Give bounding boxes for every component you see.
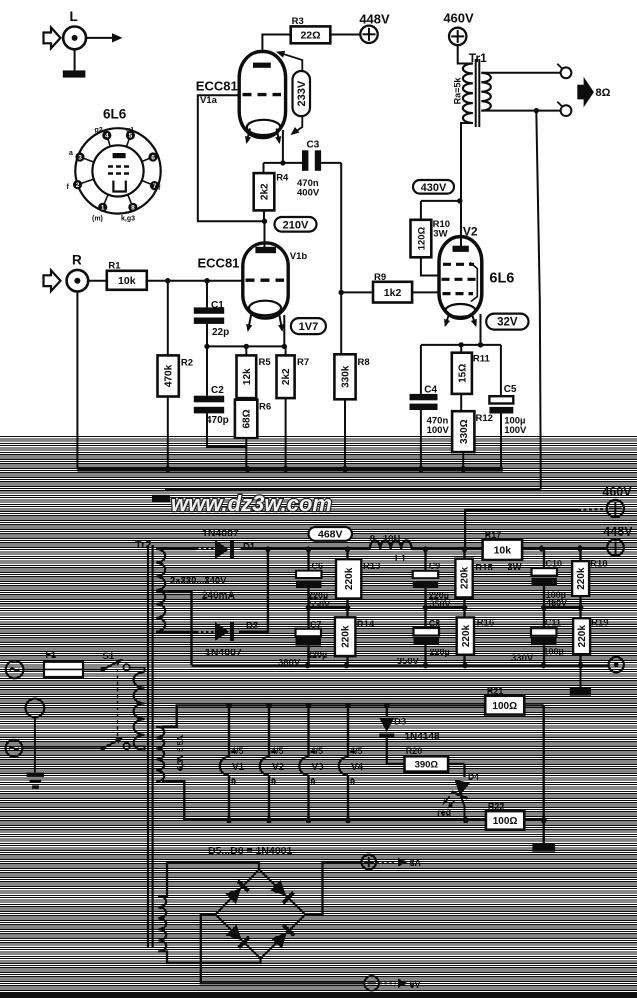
svg-text:550V: 550V bbox=[309, 599, 330, 609]
wire R3 to 448V bbox=[330, 34, 360, 36]
svg-text:R6: R6 bbox=[259, 402, 271, 413]
B+ rail bbox=[241, 546, 608, 552]
svg-text:D5...D8 = 1N4001: D5...D8 = 1N4001 bbox=[208, 845, 293, 857]
svg-text:F1: F1 bbox=[46, 650, 57, 660]
svg-text:R4: R4 bbox=[276, 173, 289, 184]
svg-text:R17: R17 bbox=[485, 530, 502, 540]
svg-text:R15: R15 bbox=[475, 563, 493, 574]
svg-text:9: 9 bbox=[231, 777, 236, 787]
resistor R21 100 ohm bbox=[485, 686, 544, 715]
svg-text:V1: V1 bbox=[232, 762, 245, 773]
svg-text:380V: 380V bbox=[278, 658, 301, 669]
svg-text:R9: R9 bbox=[374, 272, 386, 283]
svg-text:4/5: 4/5 bbox=[231, 746, 244, 756]
svg-text:S1: S1 bbox=[103, 651, 115, 662]
svg-text:R5: R5 bbox=[259, 357, 272, 368]
capacitor C5 100u 100V bbox=[489, 345, 527, 469]
svg-text:C4: C4 bbox=[424, 385, 437, 396]
svg-text:220k: 220k bbox=[341, 625, 352, 648]
svg-text:22Ω: 22Ω bbox=[300, 30, 320, 42]
svg-text:k,g3: k,g3 bbox=[121, 216, 135, 223]
svg-text:68Ω: 68Ω bbox=[242, 409, 253, 428]
wire centre tap to ground rail bbox=[156, 592, 191, 666]
svg-text:1: 1 bbox=[101, 205, 105, 212]
bridge DC plus output bbox=[305, 855, 421, 915]
svg-text:D4: D4 bbox=[468, 772, 479, 782]
wire 430V node bbox=[421, 198, 463, 220]
input jack L bbox=[44, 9, 123, 49]
svg-text:D1: D1 bbox=[243, 542, 256, 553]
wire V2 cathode row bbox=[421, 314, 501, 348]
svg-text:100V: 100V bbox=[427, 425, 450, 436]
wire V1b cathode row bbox=[204, 315, 287, 349]
svg-text:C11: C11 bbox=[545, 618, 561, 628]
svg-text:4/5: 4/5 bbox=[271, 746, 284, 756]
svg-text:330V: 330V bbox=[511, 653, 534, 664]
svg-text:D2: D2 bbox=[246, 621, 258, 632]
svg-text:C6: C6 bbox=[312, 561, 324, 571]
capacitor C3 470n 400V bbox=[297, 140, 341, 293]
svg-text:R20: R20 bbox=[406, 746, 423, 756]
svg-text:V4: V4 bbox=[351, 762, 364, 773]
svg-text:10k: 10k bbox=[494, 545, 512, 557]
diode D2 1N4007 bbox=[156, 549, 268, 659]
svg-text:L1: L1 bbox=[395, 554, 407, 565]
watermark www.dz3w.com bbox=[171, 491, 332, 516]
label 233V bbox=[275, 48, 310, 138]
svg-text:D3: D3 bbox=[394, 717, 406, 728]
resistor R4 2k2 bbox=[254, 173, 289, 222]
svg-text:R22: R22 bbox=[488, 802, 505, 812]
svg-text:red: red bbox=[437, 808, 451, 818]
resistor R22 100 ohm bbox=[486, 802, 544, 830]
svg-text:15Ω: 15Ω bbox=[457, 364, 468, 383]
svg-text:R19: R19 bbox=[591, 617, 608, 628]
wire speaker return bbox=[152, 111, 541, 502]
ground (L input) bbox=[63, 49, 86, 77]
resistor R11 15 ohm bbox=[452, 345, 491, 411]
svg-text:3W: 3W bbox=[507, 562, 521, 573]
wire grid line V1b bbox=[147, 278, 243, 283]
svg-text:220k: 220k bbox=[576, 567, 587, 590]
capacitor C4 470n 100V bbox=[410, 345, 450, 469]
svg-text:C2: C2 bbox=[211, 385, 224, 396]
wire heater common to chassis bbox=[532, 705, 555, 851]
svg-text:2k2: 2k2 bbox=[281, 368, 292, 385]
svg-text:R: R bbox=[72, 253, 82, 268]
svg-text:(m): (m) bbox=[92, 216, 103, 223]
bottom scan edge bbox=[0, 993, 637, 998]
svg-text:4: 4 bbox=[105, 133, 109, 140]
bridge rectifier D5..D8 1N4001 bbox=[208, 845, 305, 959]
resistor R8 330k bbox=[334, 292, 369, 469]
svg-text:6A: 6A bbox=[410, 858, 422, 868]
label 32V bbox=[486, 314, 528, 330]
svg-text:7: 7 bbox=[153, 183, 157, 190]
resistor R7 2k2 bbox=[277, 346, 310, 469]
svg-text:220k: 220k bbox=[344, 567, 355, 590]
svg-text:Ra=5k: Ra=5k bbox=[453, 77, 463, 105]
svg-text:12k: 12k bbox=[242, 368, 253, 385]
heater rail bottom bbox=[162, 782, 486, 824]
wire Tr1 to V2 anode bbox=[460, 201, 462, 246]
heater V2 bbox=[260, 705, 285, 820]
svg-text:4/5: 4/5 bbox=[311, 746, 324, 756]
6L6 pinout diagram bbox=[67, 107, 162, 223]
svg-text:1N4007: 1N4007 bbox=[205, 647, 242, 659]
svg-text:ECC81: ECC81 bbox=[196, 79, 238, 94]
svg-text:R8: R8 bbox=[358, 357, 370, 368]
svg-text:L: L bbox=[70, 9, 78, 24]
capacitor C6 C7 resistor R13 R14 (filter stage 1) bbox=[296, 549, 381, 666]
input jack R bbox=[44, 253, 107, 292]
svg-text:240mA: 240mA bbox=[202, 591, 235, 602]
svg-text:450V: 450V bbox=[546, 598, 567, 608]
mains terminal 1 bbox=[6, 661, 44, 679]
diode D3 1N4148 bbox=[379, 705, 440, 764]
svg-text:1N4148: 1N4148 bbox=[405, 732, 440, 743]
tube V1a ECC81 bbox=[196, 52, 286, 145]
resistor R10 120 ohm 3W bbox=[411, 219, 451, 276]
wire V1b anode bbox=[264, 221, 266, 247]
capacitor C10 C11 resistor R18 R19 (filter stage 3) bbox=[531, 549, 609, 666]
svg-text:R14: R14 bbox=[357, 619, 375, 630]
svg-text:R16: R16 bbox=[477, 618, 494, 629]
resistor R1 10k bbox=[107, 261, 147, 290]
svg-text:350V: 350V bbox=[397, 656, 420, 667]
svg-text:6,3V 5,5A: 6,3V 5,5A bbox=[176, 735, 185, 771]
resistor R12 330 ohm bbox=[452, 411, 493, 469]
svg-text:3: 3 bbox=[78, 154, 82, 161]
svg-text:10k: 10k bbox=[118, 275, 136, 287]
svg-text:R11: R11 bbox=[473, 354, 491, 365]
svg-text:g2: g2 bbox=[95, 127, 103, 134]
svg-text:350V: 350V bbox=[430, 599, 451, 609]
earth terminal and ground bbox=[26, 699, 45, 789]
resistor R5 12k bbox=[237, 346, 272, 398]
transformer Tr2 bbox=[134, 539, 235, 952]
svg-text:448V: 448V bbox=[603, 525, 633, 539]
svg-text:R18: R18 bbox=[590, 558, 607, 569]
svg-text:100Ω: 100Ω bbox=[492, 701, 517, 712]
LED D4 red bbox=[437, 772, 479, 821]
svg-text:R2: R2 bbox=[181, 358, 193, 369]
terminal 448V supply bbox=[603, 525, 633, 556]
svg-text:1V7: 1V7 bbox=[299, 321, 319, 333]
resistor R17 10k 3W bbox=[483, 530, 522, 560]
svg-text:460V: 460V bbox=[443, 11, 474, 26]
resistor R3 22 ohm bbox=[291, 16, 331, 43]
svg-text:C9: C9 bbox=[429, 561, 441, 571]
svg-text:220µ: 220µ bbox=[430, 647, 450, 657]
svg-text:32V: 32V bbox=[497, 317, 518, 329]
svg-text:2k2: 2k2 bbox=[260, 183, 271, 200]
bridge DC minus output bbox=[201, 915, 421, 991]
svg-text:6: 6 bbox=[151, 154, 155, 161]
svg-text:220µ: 220µ bbox=[307, 649, 327, 659]
label 468V bbox=[309, 527, 353, 541]
svg-text:f: f bbox=[158, 185, 161, 192]
label 430V bbox=[413, 180, 454, 194]
svg-text:R12: R12 bbox=[476, 413, 493, 424]
capacitor C2 470p bbox=[194, 346, 247, 446]
svg-text:2x330...340V: 2x330...340V bbox=[170, 576, 227, 587]
svg-text:470k: 470k bbox=[164, 364, 175, 387]
bridge AC wires bbox=[158, 862, 260, 963]
node labels 380V 350V 330V bbox=[278, 653, 534, 669]
svg-text:6L6: 6L6 bbox=[489, 271, 514, 287]
svg-text:233V: 233V bbox=[296, 80, 308, 106]
svg-text:www.dz3w.com: www.dz3w.com bbox=[171, 491, 332, 516]
svg-text:C3: C3 bbox=[307, 140, 320, 151]
node 210V bbox=[262, 217, 317, 232]
svg-text:8...10H: 8...10H bbox=[370, 534, 401, 545]
diode D1 1N4007 bbox=[156, 528, 256, 560]
heater V3 bbox=[299, 705, 324, 820]
svg-text:470p: 470p bbox=[206, 415, 229, 426]
svg-text:210V: 210V bbox=[283, 219, 309, 231]
ground rail (top schematic) bbox=[77, 466, 502, 472]
resistor R6 68 ohm bbox=[235, 400, 271, 470]
svg-text:R3: R3 bbox=[292, 16, 304, 27]
svg-text:460V: 460V bbox=[602, 485, 632, 499]
svg-text:R1: R1 bbox=[108, 261, 121, 272]
heater rail top bbox=[162, 702, 485, 726]
svg-text:1N4007: 1N4007 bbox=[202, 528, 239, 540]
svg-text:400V: 400V bbox=[297, 188, 320, 199]
svg-text:468V: 468V bbox=[318, 529, 343, 541]
fuse F1 bbox=[44, 650, 101, 678]
svg-text:9: 9 bbox=[271, 777, 276, 787]
svg-text:V1b: V1b bbox=[290, 251, 308, 262]
label 1V7 bbox=[291, 318, 326, 334]
svg-text:C1: C1 bbox=[211, 300, 224, 311]
svg-text:C10: C10 bbox=[546, 559, 563, 569]
heater V4 bbox=[339, 705, 364, 820]
svg-text:6V: 6V bbox=[410, 979, 421, 989]
svg-text:V3: V3 bbox=[312, 762, 325, 773]
capacitor C1 22p bbox=[194, 281, 229, 347]
terminal 460V top bbox=[443, 11, 474, 46]
svg-text:100V: 100V bbox=[504, 425, 527, 436]
bottom rail and 0V terminal bbox=[192, 657, 624, 696]
svg-text:6L6: 6L6 bbox=[103, 107, 127, 122]
resistor R2 470k bbox=[158, 281, 194, 470]
resistor R9 1k2 bbox=[339, 272, 440, 303]
svg-text:4/5: 4/5 bbox=[350, 746, 363, 756]
svg-text:120Ω: 120Ω bbox=[416, 226, 427, 250]
heater V1 bbox=[220, 705, 245, 820]
svg-text:1k2: 1k2 bbox=[384, 287, 402, 299]
svg-text:Tr1: Tr1 bbox=[469, 51, 487, 65]
tube V1b ECC81 bbox=[198, 243, 308, 333]
svg-text:430V: 430V bbox=[421, 182, 447, 194]
svg-text:22p: 22p bbox=[212, 327, 229, 338]
svg-text:ECC81: ECC81 bbox=[198, 256, 240, 271]
wire input R down to rail bbox=[76, 291, 78, 469]
output terminals and speaker 8 ohm bbox=[481, 64, 610, 116]
svg-text:R21: R21 bbox=[487, 686, 504, 696]
svg-text:C8: C8 bbox=[429, 619, 441, 629]
svg-text:2: 2 bbox=[76, 182, 80, 189]
svg-text:220k: 220k bbox=[461, 624, 472, 647]
svg-text:g1: g1 bbox=[126, 127, 134, 134]
terminal 448V bbox=[359, 12, 390, 44]
wire V1a grid return bbox=[198, 95, 265, 221]
svg-text:220k: 220k bbox=[460, 566, 471, 589]
svg-text:R13: R13 bbox=[363, 561, 380, 572]
mains terminal 2 bbox=[6, 740, 101, 757]
svg-text:330Ω: 330Ω bbox=[459, 419, 470, 444]
svg-text:448V: 448V bbox=[359, 12, 390, 27]
svg-text:390Ω: 390Ω bbox=[415, 759, 439, 770]
svg-text:a: a bbox=[69, 150, 73, 157]
svg-text:9: 9 bbox=[311, 777, 316, 787]
svg-text:V1a: V1a bbox=[200, 95, 218, 106]
wire V1a anode to R3 bbox=[262, 35, 290, 53]
svg-text:9: 9 bbox=[350, 777, 355, 787]
resistor R20 390 ohm bbox=[405, 746, 465, 777]
svg-text:100µ: 100µ bbox=[544, 646, 564, 656]
transformer Tr1 bbox=[453, 45, 491, 201]
svg-text:V2: V2 bbox=[272, 762, 285, 773]
svg-text:3W: 3W bbox=[433, 229, 447, 240]
svg-text:R7: R7 bbox=[297, 357, 309, 368]
svg-text:8Ω: 8Ω bbox=[596, 87, 611, 99]
switch S1 bbox=[100, 651, 144, 751]
svg-text:220k: 220k bbox=[577, 625, 588, 648]
svg-text:330k: 330k bbox=[341, 365, 352, 388]
terminal 460V supply with feed bbox=[465, 485, 632, 549]
choke L1 8...10H bbox=[370, 534, 412, 565]
wire V1a cathode node bbox=[264, 130, 303, 173]
svg-text:C7: C7 bbox=[310, 619, 322, 629]
svg-text:C5: C5 bbox=[504, 384, 517, 395]
svg-text:f: f bbox=[67, 184, 70, 191]
svg-text:8: 8 bbox=[131, 205, 135, 212]
svg-text:100Ω: 100Ω bbox=[493, 816, 518, 827]
capacitor C9 C8 resistor R15 R16 (filter stage 2) bbox=[413, 549, 522, 666]
tube V2 6L6 bbox=[439, 225, 514, 329]
svg-text:V2: V2 bbox=[463, 225, 478, 239]
